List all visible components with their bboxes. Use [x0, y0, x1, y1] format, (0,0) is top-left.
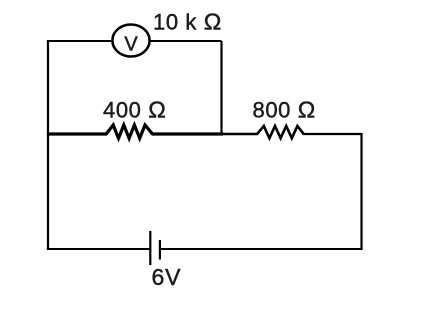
wire : top horizontal (left node to voltmeter branch corner)	[47, 40, 222, 42]
wire : voltmeter branch vertical drop	[220, 41, 222, 134]
battery B1 short plate	[159, 240, 161, 260]
wire : middle horizontal right segment to 800 ohm resistor	[222, 133, 259, 136]
svg-text:800 Ω: 800 Ω	[253, 97, 316, 123]
svg-text:10 k Ω: 10 k Ω	[153, 9, 222, 35]
voltmeter V1 (circle with V), 10 k Ohm internal resistance	[112, 25, 149, 57]
battery B1 long plate	[149, 231, 151, 265]
wire : right vertical down to bottom	[360, 134, 362, 250]
wire : middle horizontal after 800 ohm to right corner	[303, 133, 363, 135]
svg-text:400 Ω: 400 Ω	[103, 97, 166, 123]
wire : left vertical (top-left corner down to bottom-left corner)	[47, 40, 49, 250]
wire : bottom horizontal right of battery	[161, 248, 363, 250]
resistor R2 800 Ω zigzag	[257, 126, 304, 138]
svg-text:V: V	[124, 33, 138, 55]
wire : bottom horizontal left of battery	[47, 248, 150, 250]
svg-text:6V: 6V	[152, 264, 182, 290]
wire : middle horizontal thick segment from 400 ohm to branch junction	[152, 132, 223, 135]
wire : middle horizontal left segment (thick) up to 400 ohm resistor	[47, 132, 107, 135]
resistor R1 400 Ω zigzag	[106, 125, 153, 138]
